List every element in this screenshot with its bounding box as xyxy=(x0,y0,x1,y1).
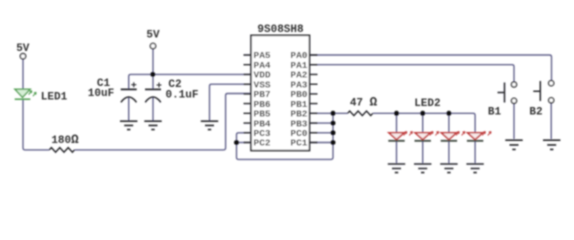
svg-text:10uF: 10uF xyxy=(88,88,114,100)
svg-text:0.1uF: 0.1uF xyxy=(165,90,198,102)
svg-text:B1: B1 xyxy=(488,107,502,119)
svg-text:180Ω: 180Ω xyxy=(51,133,79,147)
svg-text:PC1: PC1 xyxy=(290,138,307,149)
svg-text:5V: 5V xyxy=(146,29,160,41)
svg-text:PC2: PC2 xyxy=(254,138,271,149)
svg-text:B2: B2 xyxy=(529,107,542,119)
svg-text:5V: 5V xyxy=(16,43,30,55)
svg-text:9S08SH8: 9S08SH8 xyxy=(257,24,304,36)
svg-text:47 Ω: 47 Ω xyxy=(350,96,378,110)
svg-text:LED1: LED1 xyxy=(41,91,68,103)
svg-text:LED2: LED2 xyxy=(414,98,440,110)
